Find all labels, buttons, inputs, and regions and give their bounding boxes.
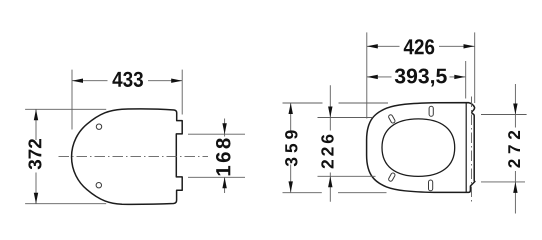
dim 372 line [35,109,37,203]
dim 426 arrow right [464,44,475,48]
dim 168 arrow bottom [222,177,226,188]
dim 393,5 arrow right [454,75,465,79]
dim 426 arrow left [367,44,378,48]
dim 393,5 extension line right [465,61,467,99]
dim 272 line [514,84,516,214]
lid outline [72,109,183,204]
seat outer contour with hinge plate [367,103,475,193]
dim 433 extension line left [71,70,73,130]
dim 272 label [508,131,520,168]
dim 372 extension line bottom [25,203,106,205]
dim 226 arrow top [328,107,332,118]
dim 433 arrow right [171,79,182,83]
hinge centerline [471,97,473,205]
dim 433 label [112,72,143,87]
dim 168 extension line bottom [188,176,245,178]
dim 433 extension line right [181,70,183,115]
dim 433 line [72,80,182,82]
dim 226 line [329,85,331,202]
dim 272 extension line top [481,114,527,116]
bumper slot bottom right [429,180,433,191]
dim 359 extension line top [283,102,389,104]
lid centerline [59,155,209,157]
dim 372 label [28,139,41,169]
dim 272 arrow top [513,104,517,115]
dim 359 arrow bottom [289,181,293,192]
dim 359 arrow top [289,103,293,114]
dim 433 arrow left [72,79,83,83]
dim 426 extension line left [366,32,368,118]
dim 359 extension line bottom [283,192,387,194]
dim 359 label [285,130,297,166]
hinge plate joint line [465,103,467,192]
bumper slot bottom left [388,172,396,182]
dim 372 arrow top [34,109,38,120]
lid hole bottom [96,183,101,188]
dim 426 extension line right [474,32,476,103]
dim 426 label [404,39,435,54]
dim 372 extension line top [25,108,106,110]
bumper slot top right [429,106,433,116]
dim 226 extension line bottom [318,175,376,177]
dim 393,5 arrow left [367,75,378,79]
dim 168 label [216,138,231,175]
lid hole top [96,124,101,129]
dim 168 line [224,119,226,194]
dim 226 extension line top [318,117,373,119]
bumper slot top left [388,114,396,124]
dim 393,5 line [367,76,466,78]
dim 168 extension line top [188,133,245,135]
dim 393,5 label [395,69,447,87]
dim 168 arrow top [222,123,226,134]
dim 226 arrow bottom [328,176,332,187]
inner opening [382,119,455,176]
dim 426 line [367,45,475,47]
dim 359 line [290,103,292,192]
dim 372 arrow bottom [34,193,38,204]
dim 272 extension line bottom [481,181,525,183]
dim 272 arrow bottom [513,182,517,193]
dim 226 label [321,135,333,169]
